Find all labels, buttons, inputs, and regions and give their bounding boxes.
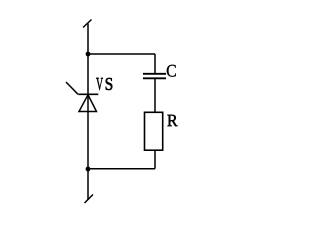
wire main vertical (top terminal through VS to bottom terminal) xyxy=(87,24,89,201)
capacitor C bottom plate xyxy=(143,77,166,79)
wire top horizontal xyxy=(88,53,155,55)
label VS letter S xyxy=(106,78,113,90)
top terminal break tick xyxy=(83,20,92,28)
capacitor C top plate xyxy=(143,73,166,75)
thyristor VS triangle xyxy=(79,95,97,112)
wire resistor to bottom corner xyxy=(154,150,156,169)
wire bottom horizontal xyxy=(88,168,155,170)
thyristor VS gate lead xyxy=(66,82,78,94)
label VS letter V xyxy=(96,78,103,90)
thyristor VS cathode bar xyxy=(78,93,98,95)
node top junction dot xyxy=(86,52,91,57)
label C xyxy=(167,65,176,77)
bottom terminal break tick xyxy=(85,195,94,204)
wire right branch upper xyxy=(154,54,156,74)
wire capacitor to resistor xyxy=(154,78,156,112)
resistor R body xyxy=(145,112,163,150)
node bottom junction dot xyxy=(86,167,91,172)
label R xyxy=(167,115,177,126)
